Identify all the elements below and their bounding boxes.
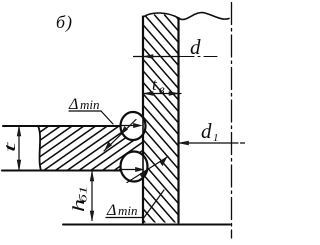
- wall bottom end face line to axis: [63, 224, 230, 226]
- svg-text:Δ: Δ: [106, 202, 116, 219]
- svg-text:min: min: [80, 97, 100, 112]
- svg-text:б1: б1: [77, 186, 89, 203]
- lower Δmin leader line: [144, 190, 164, 218]
- axis centerline (dash-dot): [231, 3, 233, 239]
- svg-text:б): б): [56, 12, 73, 33]
- upper Δmin label with underline: [68, 96, 100, 113]
- plate bottom edge with left extension line: [2, 169, 143, 171]
- t bottom arrowhead: [17, 160, 21, 170]
- svg-text:в: в: [159, 82, 165, 97]
- tв left arrowhead: [144, 92, 154, 96]
- dimension d line (to axis, dash-dot): [134, 56, 181, 58]
- wall thickness dimension line tв: [144, 93, 182, 95]
- wall left edge visible through upper weld: [142, 113, 144, 141]
- plate thickness t dimension line: [18, 127, 20, 171]
- svg-text:t: t: [1, 141, 19, 153]
- weld nugget upper: [121, 112, 146, 140]
- upper weld penetration arrow (horizontal): [120, 125, 139, 127]
- wall right edge: [177, 18, 179, 223]
- upper Δmin leader line: [101, 111, 113, 124]
- t top arrowhead: [17, 127, 21, 137]
- lower weld diagonal measure line: [127, 157, 168, 183]
- upper diagonal arrowhead mid: [121, 127, 128, 135]
- plate top edge with left extension line: [3, 125, 143, 127]
- label hб1 (rotated): [69, 186, 90, 212]
- label d1: [201, 119, 219, 144]
- wall left edge: [142, 17, 144, 223]
- dimension d arrowhead at outer surface: [144, 55, 154, 59]
- upper diagonal arrowhead end: [105, 142, 112, 150]
- wall left edge visible through lower weld: [142, 153, 144, 182]
- vertical wall hatching: [143, 15, 179, 223]
- label d: [190, 35, 201, 59]
- lower diagonal arrowhead mid: [140, 170, 147, 178]
- svg-text:d: d: [201, 119, 212, 143]
- wall top break line: [143, 13, 179, 18]
- lower weld penetration arrow (horizontal): [120, 169, 139, 171]
- shell top break line to axis: [179, 13, 230, 20]
- tв right arrowhead: [169, 92, 179, 96]
- svg-text:1: 1: [213, 132, 219, 144]
- label tв: [152, 75, 165, 97]
- weld leg height dimension line hб1: [91, 172, 93, 221]
- dimension d1 line (inner diameter to axis): [179, 142, 238, 144]
- label б) figure sub-caption: [56, 12, 73, 33]
- d1 arrowhead at inner surface: [179, 141, 189, 145]
- hб1 bottom arrowhead: [90, 211, 94, 221]
- hб1 top arrowhead: [90, 172, 94, 182]
- flange plate hatching: [37, 126, 143, 171]
- lower Δmin label with underline: [106, 202, 138, 219]
- plate left break edge: [38, 126, 41, 171]
- upper weld diagonal measure line: [104, 120, 136, 152]
- svg-text:d: d: [190, 35, 201, 59]
- weld nugget lower: [121, 152, 148, 182]
- lower diagonal arrowhead end: [160, 158, 167, 166]
- label t (rotated): [1, 141, 19, 153]
- svg-text:min: min: [118, 203, 138, 218]
